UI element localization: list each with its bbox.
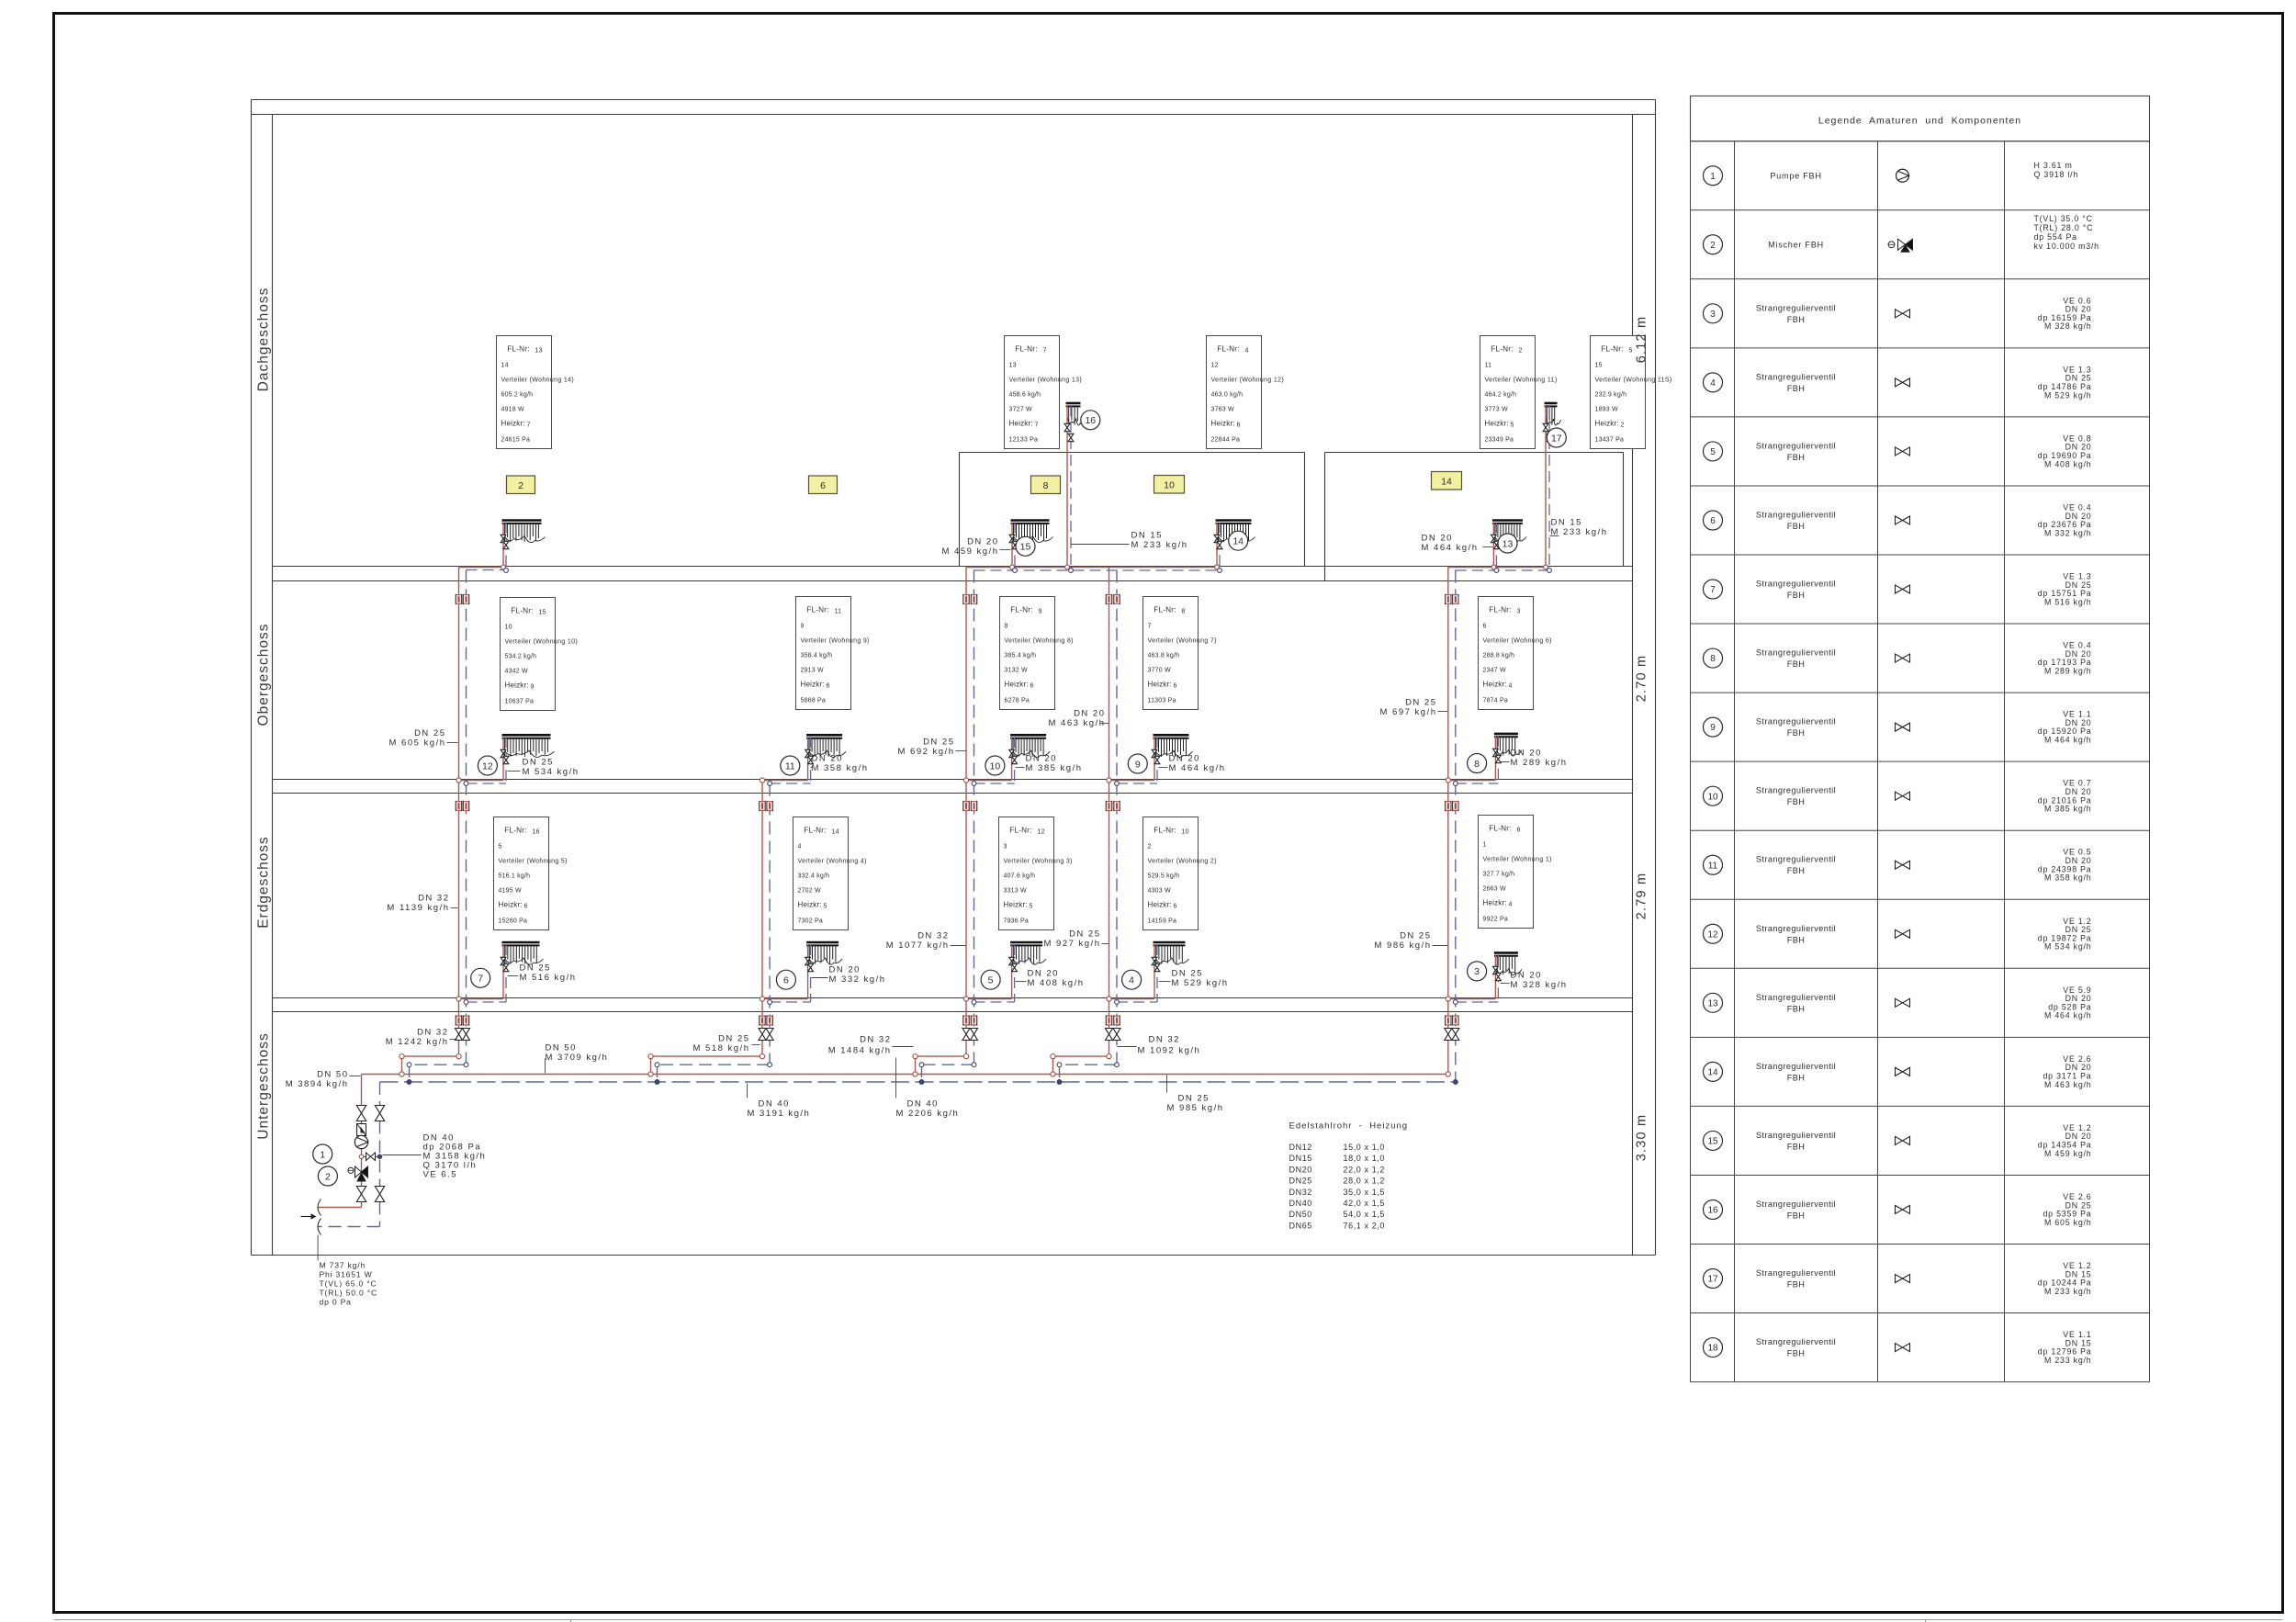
- svg-text:22844 Pa: 22844 Pa: [1211, 437, 1241, 444]
- svg-text:327.7 kg/h: 327.7 kg/h: [1483, 872, 1515, 878]
- svg-text:FBH: FBH: [1787, 1211, 1806, 1220]
- floor label Untergeschoss: [256, 1032, 272, 1139]
- legend row 16: [1704, 1192, 2092, 1227]
- svg-text:M 3894 kg/h: M 3894 kg/h: [286, 1079, 349, 1089]
- label DN25 M985 main right: [1167, 1076, 1224, 1114]
- valve on manifold EG-5 riser: [1009, 957, 1018, 971]
- svg-text:Heizkr:: Heizkr:: [1211, 420, 1235, 428]
- DG header mid segment return: [974, 569, 1221, 571]
- svg-text:5: 5: [499, 844, 502, 850]
- manifold DG-17 riser supply: [1544, 405, 1548, 569]
- svg-text:FL-Nr:: FL-Nr:: [1010, 606, 1032, 614]
- svg-text:Heizkr:: Heizkr:: [1009, 420, 1033, 428]
- supply pipe to pump station: [319, 1075, 362, 1208]
- branch pipe to manifold OG-8 supply: [1446, 736, 1495, 783]
- svg-text:FBH: FBH: [1787, 1004, 1806, 1013]
- svg-text:Mischer FBH: Mischer FBH: [1768, 241, 1824, 250]
- svg-text:DN 20: DN 20: [1511, 971, 1542, 981]
- svg-text:10: 10: [1164, 480, 1175, 491]
- label DN20 M385 manifold OG-10: [1016, 754, 1083, 774]
- svg-text:3: 3: [1004, 844, 1007, 850]
- riser strand 5 return: [1453, 570, 1458, 1085]
- label DN32 M1077 strand3 EG: [886, 931, 966, 952]
- svg-text:M 986 kg/h: M 986 kg/h: [1375, 941, 1432, 951]
- svg-text:3773 W: 3773 W: [1485, 407, 1509, 413]
- valves on manifold DG-15 riser: [1009, 535, 1018, 548]
- legend row 8: [1704, 641, 2092, 676]
- svg-text:FBH: FBH: [1787, 935, 1806, 944]
- distributor info box FL-Nr 5: [1591, 336, 1672, 449]
- label DN20 M459 manifold DG-15: [942, 537, 1011, 558]
- svg-text:Strangregulierventil: Strangregulierventil: [1756, 510, 1836, 519]
- svg-text:3770 W: 3770 W: [1148, 668, 1172, 674]
- manifold DG-16 riser return: [1069, 405, 1074, 572]
- svg-text:23349 Pa: 23349 Pa: [1485, 437, 1514, 444]
- svg-text:M 332 kg/h: M 332 kg/h: [829, 974, 886, 985]
- svg-text:6: 6: [1483, 624, 1487, 630]
- branch pipe to manifold EG-6 supply: [760, 944, 807, 1001]
- svg-text:14: 14: [832, 829, 839, 836]
- svg-text:3132 W: 3132 W: [1005, 668, 1029, 674]
- svg-text:FL-Nr:: FL-Nr:: [1601, 345, 1623, 354]
- svg-text:605.2 kg/h: 605.2 kg/h: [501, 392, 534, 399]
- riser strand 1 supply: [400, 568, 461, 1077]
- svg-text:M 459 kg/h: M 459 kg/h: [942, 546, 999, 557]
- svg-text:DN 20: DN 20: [967, 537, 998, 547]
- svg-text:9: 9: [801, 624, 805, 630]
- svg-text:M 233 kg/h: M 233 kg/h: [1551, 527, 1608, 537]
- svg-text:12133 Pa: 12133 Pa: [1009, 437, 1039, 444]
- svg-text:5: 5: [1511, 422, 1514, 429]
- distributor info box FL-Nr 2: [1480, 336, 1558, 449]
- svg-text:dp 0 Pa: dp 0 Pa: [320, 1298, 352, 1307]
- svg-text:DN 20: DN 20: [1422, 534, 1453, 544]
- svg-text:6: 6: [1174, 904, 1177, 910]
- floor label Obergeschoss: [256, 624, 272, 727]
- component bubble 2 mixer: [318, 1166, 337, 1186]
- pipe break symbol return: [318, 1219, 321, 1235]
- valve number bubble 7: [471, 968, 490, 987]
- svg-text:24615 Pa: 24615 Pa: [501, 437, 531, 444]
- svg-text:15,0 x 1,0: 15,0 x 1,0: [1344, 1143, 1386, 1152]
- svg-text:15: 15: [539, 610, 546, 616]
- legend row 14: [1704, 1054, 2092, 1089]
- bypass with regulating valve: [359, 1153, 381, 1161]
- svg-text:M 529 kg/h: M 529 kg/h: [1172, 978, 1229, 988]
- riser strand 3 return: [919, 570, 976, 1085]
- svg-text:DN50: DN50: [1289, 1210, 1312, 1219]
- label DN25 M986 strand5 EG: [1375, 931, 1448, 952]
- slab penetration strand 5 at y652: [1446, 594, 1458, 605]
- svg-text:Strangregulierventil: Strangregulierventil: [1756, 303, 1836, 312]
- svg-text:15: 15: [1707, 1137, 1718, 1147]
- svg-text:M 233 kg/h: M 233 kg/h: [1131, 540, 1188, 550]
- svg-text:42,0 x 1,5: 42,0 x 1,5: [1344, 1199, 1386, 1208]
- svg-text:M 408 kg/h: M 408 kg/h: [2044, 459, 2092, 468]
- branch pipe to manifold EG-7 return: [464, 944, 506, 1004]
- svg-text:Heizkr:: Heizkr:: [1005, 681, 1029, 689]
- valve on manifold OG-12 riser: [501, 749, 509, 763]
- branch pipe to manifold EG-3 return: [1453, 954, 1498, 1004]
- branch pipe to manifold EG-7 supply: [456, 944, 503, 1001]
- label DN32 M1139 strand1 EG: [387, 894, 457, 914]
- svg-text:18,0 x 1,0: 18,0 x 1,0: [1344, 1154, 1386, 1163]
- distributor info box FL-Nr 12: [999, 817, 1073, 930]
- svg-text:7936 Pa: 7936 Pa: [1004, 918, 1029, 925]
- svg-text:3.30 m: 3.30 m: [1635, 1114, 1649, 1162]
- riser strand 5 supply: [1446, 568, 1450, 1077]
- svg-text:DN25: DN25: [1289, 1177, 1312, 1186]
- riser strand 3 supply: [913, 568, 969, 1077]
- valve on manifold OG-10 riser: [1009, 749, 1018, 763]
- svg-text:2.70 m: 2.70 m: [1635, 655, 1649, 703]
- heating manifold EG-7: [502, 942, 544, 964]
- svg-text:10: 10: [1182, 829, 1189, 836]
- svg-text:7: 7: [1035, 422, 1039, 429]
- manifold DG-14 riser return: [1218, 523, 1222, 573]
- svg-text:15: 15: [1020, 542, 1031, 553]
- label DN40 M3191 return main: [748, 1084, 811, 1120]
- svg-text:7: 7: [478, 974, 483, 985]
- svg-text:DN 25: DN 25: [1069, 929, 1100, 940]
- riser strand 4 return: [1057, 570, 1119, 1085]
- svg-text:Strangregulierventil: Strangregulierventil: [1756, 372, 1836, 381]
- dimension label 2.70 m: [1635, 655, 1649, 703]
- svg-text:232.9 kg/h: 232.9 kg/h: [1595, 392, 1627, 399]
- svg-text:Verteiler (Wohnung 12): Verteiler (Wohnung 12): [1211, 377, 1285, 384]
- label DN20 M463 strand4 OG: [1049, 709, 1109, 729]
- branch pipe to manifold OG-11 return: [768, 737, 811, 785]
- valve number bubble 8: [1468, 754, 1487, 773]
- svg-text:9: 9: [1039, 609, 1042, 615]
- svg-text:DN 20: DN 20: [812, 754, 843, 764]
- svg-text:M 233 kg/h: M 233 kg/h: [2044, 1287, 2092, 1296]
- svg-text:12: 12: [1707, 929, 1718, 940]
- svg-text:DN 32: DN 32: [417, 1028, 448, 1038]
- svg-text:M 1484 kg/h: M 1484 kg/h: [828, 1046, 892, 1056]
- riser strand 2 return: [655, 783, 771, 1085]
- svg-text:2347 W: 2347 W: [1483, 668, 1507, 674]
- manifold DG-14 riser supply: [1215, 523, 1220, 569]
- svg-text:FL-Nr:: FL-Nr:: [804, 827, 826, 835]
- svg-text:Q 3918 l/h: Q 3918 l/h: [2034, 170, 2079, 179]
- svg-text:Verteiler (Wohnung 11S): Verteiler (Wohnung 11S): [1595, 377, 1672, 384]
- svg-text:M 2206 kg/h: M 2206 kg/h: [896, 1109, 960, 1119]
- slab penetration strand 3 at y877: [963, 801, 977, 812]
- valve number bubble 12: [478, 756, 497, 775]
- svg-text:Obergeschoss: Obergeschoss: [256, 624, 272, 727]
- svg-text:28,0 x 1,2: 28,0 x 1,2: [1344, 1177, 1386, 1186]
- svg-text:kv 10.000 m3/h: kv 10.000 m3/h: [2034, 242, 2099, 251]
- svg-text:DN32: DN32: [1289, 1188, 1312, 1197]
- svg-text:M 985 kg/h: M 985 kg/h: [1167, 1103, 1224, 1113]
- floor label Dachgeschoss: [256, 287, 272, 392]
- svg-text:M 463 kg/h: M 463 kg/h: [2044, 1080, 2092, 1089]
- svg-text:Strangregulierventil: Strangregulierventil: [1756, 1131, 1836, 1140]
- shutoff valve return bottom: [375, 1187, 384, 1202]
- svg-text:Heizkr:: Heizkr:: [1485, 420, 1509, 428]
- svg-text:4: 4: [1245, 348, 1249, 355]
- svg-text:DN 32: DN 32: [917, 931, 949, 941]
- svg-text:Strangregulierventil: Strangregulierventil: [1756, 648, 1836, 658]
- svg-text:9: 9: [1710, 723, 1716, 733]
- heating manifold OG-9: [1154, 735, 1193, 757]
- svg-text:2702 W: 2702 W: [798, 888, 822, 895]
- svg-text:FL-Nr:: FL-Nr:: [504, 827, 526, 835]
- heating manifold DG-16: [1066, 403, 1085, 425]
- svg-text:Heizkr:: Heizkr:: [1148, 901, 1172, 909]
- svg-text:17: 17: [1707, 1275, 1718, 1285]
- heating manifold EG-6: [806, 942, 842, 964]
- svg-text:Verteiler (Wohnung 13): Verteiler (Wohnung 13): [1009, 377, 1083, 384]
- svg-text:3763 W: 3763 W: [1211, 407, 1235, 413]
- svg-text:8: 8: [1474, 759, 1480, 770]
- svg-text:10637 Pa: 10637 Pa: [505, 699, 535, 705]
- branch pipe to manifold EG-6 return: [768, 944, 811, 1004]
- svg-text:DN 25: DN 25: [1172, 969, 1203, 979]
- svg-text:4: 4: [1509, 902, 1513, 908]
- svg-text:DN 25: DN 25: [523, 758, 554, 768]
- svg-text:6.12 m: 6.12 m: [1635, 316, 1649, 364]
- svg-text:DN 40: DN 40: [907, 1099, 939, 1109]
- legend row 6: [1704, 502, 2092, 537]
- svg-text:M 328 kg/h: M 328 kg/h: [1511, 980, 1568, 990]
- svg-text:Verteiler (Wohnung 5): Verteiler (Wohnung 5): [499, 859, 568, 865]
- svg-text:Verteiler (Wohnung 4): Verteiler (Wohnung 4): [798, 859, 867, 865]
- legend table grid: [1691, 96, 2150, 1382]
- svg-text:2913 W: 2913 W: [801, 668, 825, 674]
- label DN25 M927 strand4 EG: [1044, 929, 1109, 950]
- svg-text:FL-Nr:: FL-Nr:: [507, 345, 529, 354]
- svg-text:6: 6: [524, 904, 528, 910]
- svg-text:11303 Pa: 11303 Pa: [1148, 698, 1176, 704]
- manifold DG-A riser return: [504, 523, 509, 573]
- svg-text:T(RL) 28.0 °C: T(RL) 28.0 °C: [2034, 223, 2094, 232]
- branch pipe to manifold EG-5 supply: [963, 944, 1011, 1001]
- svg-text:5868 Pa: 5868 Pa: [801, 698, 826, 704]
- svg-text:2: 2: [1710, 241, 1716, 251]
- svg-text:6: 6: [1174, 683, 1177, 690]
- svg-text:M 464 kg/h: M 464 kg/h: [2044, 736, 2092, 745]
- svg-text:4342 W: 4342 W: [505, 669, 529, 675]
- svg-text:M 385 kg/h: M 385 kg/h: [1026, 763, 1083, 773]
- svg-text:M 534 kg/h: M 534 kg/h: [2044, 942, 2092, 952]
- manifold DG-13 riser return: [1494, 523, 1499, 573]
- label DN32 M1092 strand4 UG: [1118, 1035, 1201, 1056]
- branch pipe to manifold OG-9 supply: [1107, 737, 1154, 783]
- valve on manifold OG-11 riser: [805, 749, 814, 763]
- slab penetration strand 5 at y877: [1446, 801, 1458, 812]
- legend row 3: [1704, 296, 2092, 331]
- svg-text:DN12: DN12: [1289, 1143, 1312, 1152]
- svg-text:9: 9: [531, 684, 535, 691]
- svg-text:DN 40: DN 40: [759, 1099, 790, 1109]
- label DN20 M332 manifold EG-6: [812, 965, 886, 986]
- building outline and floor slabs: [252, 100, 1656, 1256]
- manifold DG-16 riser supply: [1065, 405, 1070, 569]
- heating manifold EG-5: [1010, 942, 1046, 964]
- svg-text:Heizkr:: Heizkr:: [505, 681, 529, 690]
- svg-text:14: 14: [1441, 477, 1452, 488]
- heating manifold DG-15: [1011, 521, 1053, 543]
- svg-text:FBH: FBH: [1787, 522, 1806, 531]
- svg-text:DN 20: DN 20: [829, 965, 861, 975]
- branch pipe to manifold OG-9 return: [1115, 737, 1157, 785]
- svg-text:FL-Nr:: FL-Nr:: [1154, 827, 1176, 835]
- svg-text:H 3.61 m: H 3.61 m: [2034, 161, 2073, 170]
- svg-text:17: 17: [1551, 433, 1562, 444]
- svg-text:9: 9: [1135, 759, 1141, 770]
- slab penetration strand 3 at y1110: [963, 1015, 977, 1026]
- Dachgeschoss attic room boxes: [960, 453, 1624, 581]
- svg-text:DN 50: DN 50: [546, 1043, 577, 1053]
- slab penetration strand 2 at y1110: [760, 1015, 773, 1026]
- svg-text:Heizkr:: Heizkr:: [1483, 899, 1507, 907]
- slab penetration strand 5 at y1110: [1446, 1015, 1458, 1026]
- svg-text:8: 8: [1005, 624, 1008, 630]
- svg-text:15: 15: [1595, 363, 1603, 369]
- svg-text:Verteiler (Wohnung 6): Verteiler (Wohnung 6): [1483, 638, 1552, 645]
- svg-text:7302 Pa: 7302 Pa: [798, 918, 823, 925]
- svg-text:2: 2: [1148, 844, 1152, 850]
- svg-text:Strangregulierventil: Strangregulierventil: [1756, 1062, 1836, 1071]
- leader to source data: [317, 1235, 319, 1261]
- slab penetration strand 1 at y1110: [456, 1015, 468, 1026]
- svg-text:4195 W: 4195 W: [499, 888, 523, 895]
- room tag 6: [809, 476, 838, 494]
- label DN50 M3894 main start: [286, 1070, 361, 1090]
- shutoff valve supply bottom: [356, 1187, 366, 1202]
- branch pipe to manifold EG-4 return: [1115, 944, 1157, 1004]
- slab penetration strand 3 at y652: [963, 594, 977, 605]
- shutoff valve return top: [375, 1106, 384, 1121]
- svg-text:1: 1: [320, 1149, 325, 1160]
- svg-text:M 289 kg/h: M 289 kg/h: [2044, 666, 2092, 675]
- valve on manifold EG-3 riser: [1493, 966, 1502, 980]
- pump FBH: [355, 1135, 367, 1148]
- svg-text:M 605 kg/h: M 605 kg/h: [389, 738, 446, 749]
- label DN25 M529 manifold EG-4: [1159, 969, 1229, 989]
- svg-text:DN 25: DN 25: [923, 738, 954, 748]
- svg-text:2.79 m: 2.79 m: [1635, 873, 1649, 920]
- svg-text:534.2 kg/h: 534.2 kg/h: [505, 654, 537, 660]
- distributor info box FL-Nr 7: [1005, 336, 1083, 449]
- svg-text:Phi 31651 W: Phi 31651 W: [320, 1270, 373, 1279]
- svg-text:Untergeschoss: Untergeschoss: [256, 1032, 272, 1139]
- label DN25 M697 strand5 OG: [1380, 698, 1448, 718]
- svg-text:DN 32: DN 32: [1149, 1035, 1180, 1045]
- label DN15 M233 riser 17: [1550, 518, 1608, 538]
- svg-text:FL-Nr:: FL-Nr:: [511, 607, 533, 615]
- label DN25 M692 strand3 OG: [898, 738, 966, 758]
- distributor info box FL-Nr 10: [1143, 817, 1217, 930]
- dirt trap filter: [357, 1124, 366, 1136]
- valve on manifold OG-9 riser: [1152, 749, 1160, 763]
- svg-text:10: 10: [1707, 792, 1718, 802]
- room tag 14: [1432, 472, 1462, 490]
- svg-text:FBH: FBH: [1787, 453, 1806, 462]
- svg-text:7: 7: [527, 422, 531, 429]
- legend row 1: [1704, 161, 2079, 186]
- heating manifold DG-14: [1216, 521, 1255, 543]
- branch pipe to manifold OG-12 return: [464, 737, 506, 785]
- valve on manifold EG-7 riser: [501, 957, 509, 971]
- svg-text:6: 6: [820, 480, 826, 491]
- valve number bubble 16: [1081, 411, 1100, 430]
- svg-text:464.2 kg/h: 464.2 kg/h: [1485, 392, 1517, 399]
- heating manifold DG-13: [1492, 521, 1526, 543]
- svg-text:DN 25: DN 25: [1400, 931, 1431, 941]
- svg-text:Verteiler (Wohnung 8): Verteiler (Wohnung 8): [1005, 638, 1074, 645]
- riser strand 4 supply: [1051, 568, 1111, 1077]
- svg-text:8: 8: [1710, 654, 1716, 664]
- svg-text:Strangregulierventil: Strangregulierventil: [1756, 993, 1836, 1002]
- branch pipe to manifold OG-8 return: [1453, 736, 1498, 785]
- svg-text:DN 15: DN 15: [1551, 518, 1582, 528]
- svg-text:Heizkr:: Heizkr:: [499, 901, 523, 909]
- legend row 10: [1704, 779, 2092, 814]
- svg-text:463.0 kg/h: 463.0 kg/h: [1211, 392, 1244, 399]
- valve number bubble 13: [1498, 534, 1517, 553]
- svg-text:12: 12: [482, 760, 493, 772]
- valve number bubble 3: [1468, 962, 1487, 981]
- svg-text:7: 7: [1148, 624, 1152, 630]
- label DN20 M358 manifold OG-11: [811, 754, 869, 774]
- svg-text:4: 4: [1509, 683, 1513, 690]
- slab penetration strand 4 at y1110: [1106, 1015, 1120, 1026]
- svg-text:FL-Nr:: FL-Nr:: [1491, 345, 1513, 354]
- svg-text:6: 6: [1710, 516, 1716, 526]
- distributor info box FL-Nr 8: [1143, 597, 1217, 710]
- svg-text:Strangregulierventil: Strangregulierventil: [1756, 1200, 1836, 1209]
- svg-text:16: 16: [1085, 415, 1096, 426]
- branch pipe to manifold EG-5 return: [972, 944, 1015, 1004]
- svg-text:Verteiler (Wohnung 3): Verteiler (Wohnung 3): [1004, 859, 1073, 865]
- svg-text:1: 1: [1710, 172, 1716, 182]
- svg-text:M 233 kg/h: M 233 kg/h: [2044, 1356, 2092, 1365]
- svg-text:15260 Pa: 15260 Pa: [499, 918, 528, 925]
- heating manifold OG-12: [502, 735, 555, 757]
- valve on manifold EG-6 riser: [805, 957, 814, 971]
- svg-text:Strangregulierventil: Strangregulierventil: [1756, 580, 1836, 589]
- svg-text:14: 14: [1707, 1067, 1718, 1077]
- svg-text:Heizkr:: Heizkr:: [1483, 681, 1507, 689]
- svg-text:M 534 kg/h: M 534 kg/h: [523, 767, 580, 777]
- svg-text:5: 5: [1710, 447, 1716, 457]
- svg-text:DN 20: DN 20: [1028, 969, 1059, 979]
- distributor info box FL-Nr 4: [1207, 336, 1285, 449]
- svg-text:2: 2: [1621, 422, 1625, 429]
- svg-text:FBH: FBH: [1787, 1142, 1806, 1151]
- svg-text:14: 14: [501, 363, 509, 369]
- component bubble 1 pump: [313, 1144, 332, 1164]
- valve on manifold EG-4 riser: [1152, 957, 1160, 971]
- svg-text:M 516 kg/h: M 516 kg/h: [520, 973, 577, 983]
- svg-text:M 289 kg/h: M 289 kg/h: [1511, 758, 1568, 768]
- svg-text:DN40: DN40: [1289, 1199, 1312, 1208]
- manifold DG-17 riser return: [1548, 405, 1552, 572]
- valve number bubble 15: [1016, 536, 1035, 556]
- legend title: [1818, 116, 2021, 127]
- svg-text:M 408 kg/h: M 408 kg/h: [1028, 978, 1085, 988]
- svg-text:Verteiler (Wohnung 10): Verteiler (Wohnung 10): [505, 639, 579, 646]
- manifold DG-15 riser return: [1013, 523, 1018, 573]
- heating manifold OG-11: [806, 735, 846, 757]
- svg-text:2: 2: [518, 480, 523, 491]
- svg-text:6278 Pa: 6278 Pa: [1005, 698, 1030, 704]
- flow direction arrow: [301, 1213, 317, 1219]
- svg-text:M 459 kg/h: M 459 kg/h: [2044, 1149, 2092, 1158]
